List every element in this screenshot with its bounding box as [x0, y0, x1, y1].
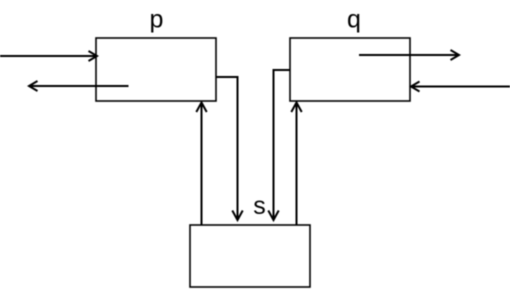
- up arrow from s to p: [196, 103, 206, 226]
- wire from p right edge down to s with arrow: [216, 77, 243, 220]
- arrow into p from left: [0, 51, 97, 61]
- box s: [190, 225, 310, 287]
- svg-text:p: p: [150, 6, 164, 34]
- arrow out of p to left: [29, 81, 129, 91]
- svg-text:q: q: [347, 6, 361, 34]
- box p: [96, 38, 216, 101]
- box q: [290, 38, 410, 101]
- svg-text:s: s: [253, 192, 266, 220]
- arrow into q from right: [411, 82, 510, 92]
- up arrow from s to q: [291, 103, 301, 226]
- arrow out of q to right: [359, 50, 459, 60]
- wire from q left edge down to s with arrow: [268, 70, 289, 220]
